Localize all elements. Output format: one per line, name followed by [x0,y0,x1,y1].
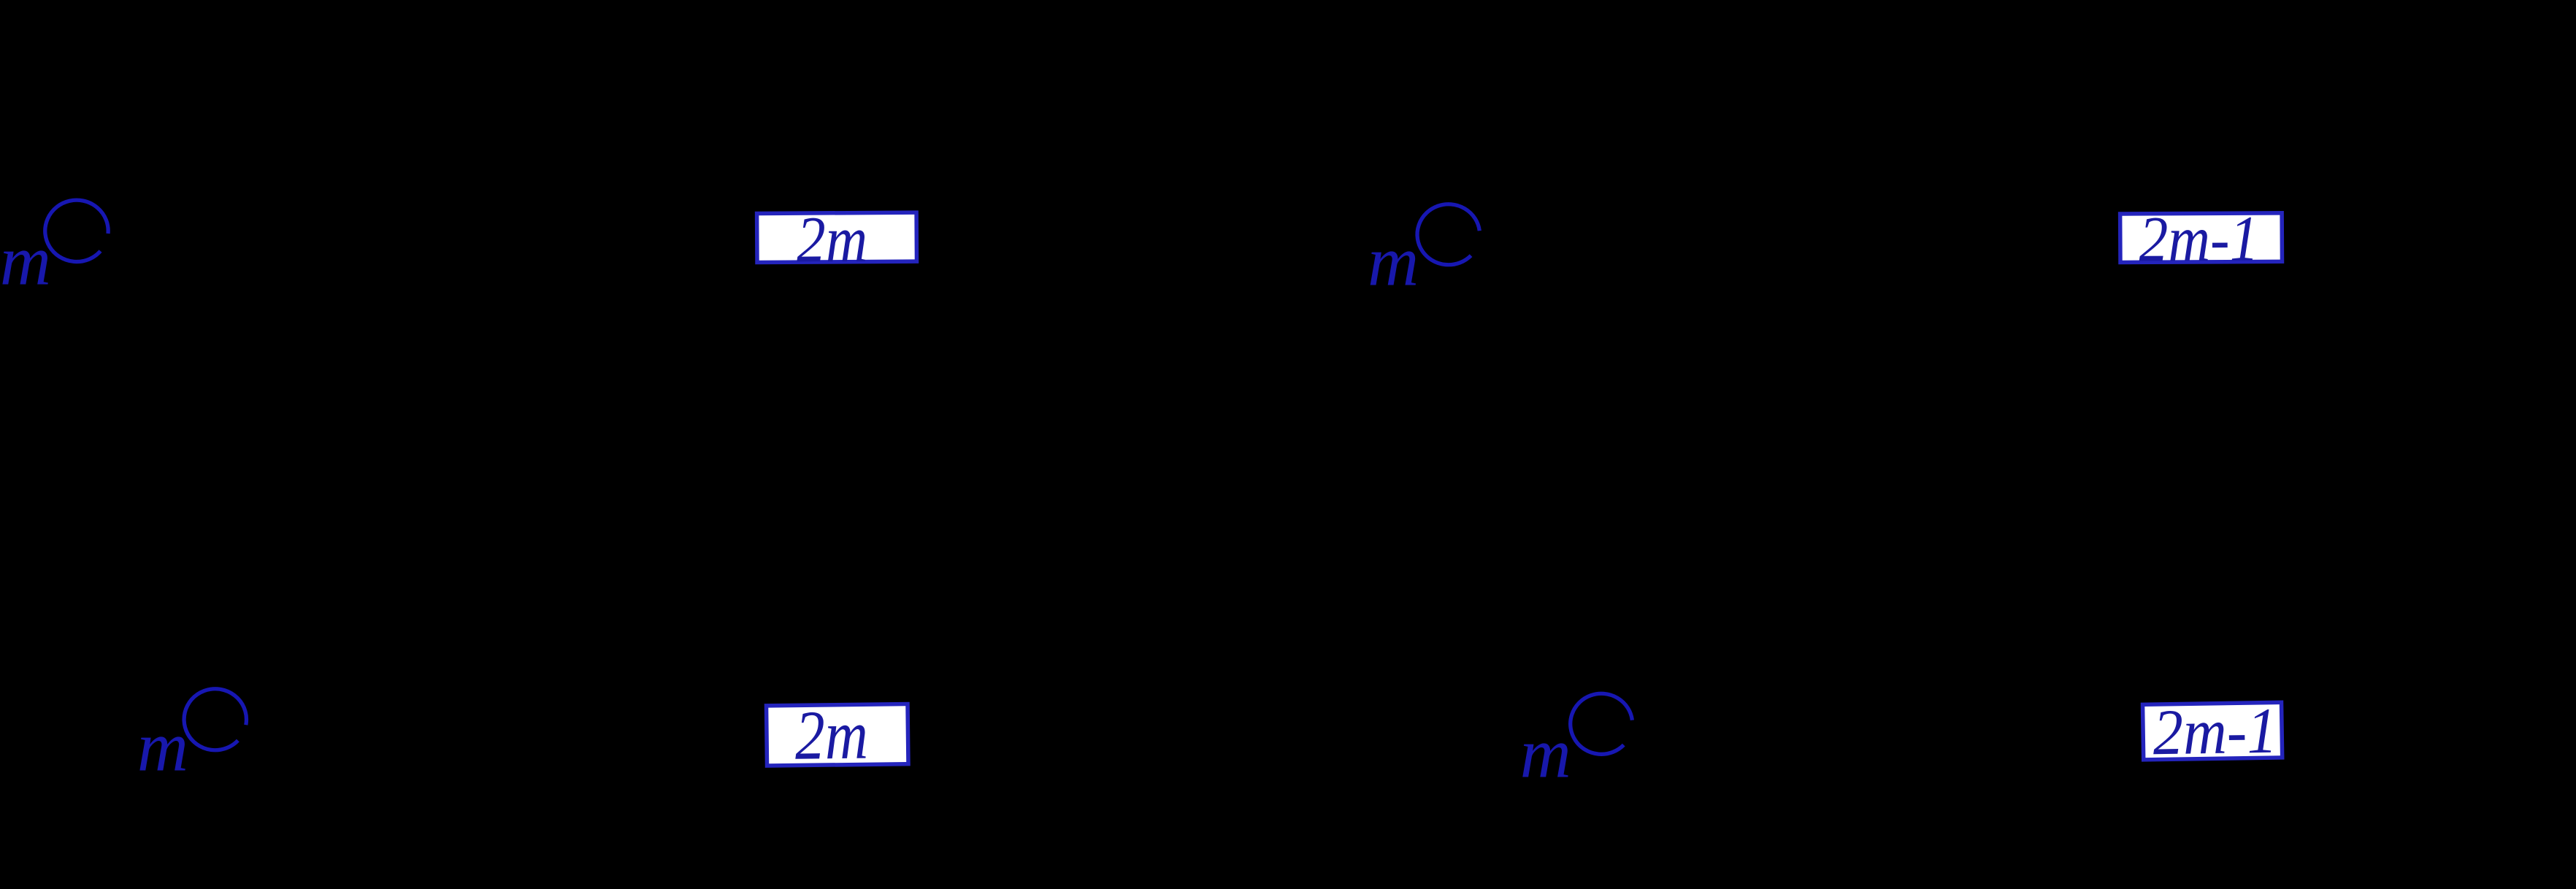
svg-text:m: m [0,222,51,300]
repeat-count box 2m-1 (top, right polymer) [2120,203,2282,275]
label m (top-left ring) [0,222,51,300]
repeat-count box 2m (top, left polymer) [757,203,917,276]
macrocycle ring (bottom-left structure) [184,689,246,750]
svg-text:2m-1: 2m-1 [2139,204,2259,276]
svg-text:m: m [1368,223,1419,301]
macrocycle ring (top-left structure) [45,200,108,261]
svg-text:m: m [137,708,188,786]
svg-text:m: m [1520,714,1571,792]
label m (bottom-left ring) [137,708,188,786]
macrocycle ring (bottom-right structure) [1571,693,1633,754]
svg-text:2m-1: 2m-1 [2153,696,2278,769]
macrocycle ring (top-right structure) [1417,204,1479,265]
label m (top-right ring) [1368,223,1419,301]
svg-text:2m: 2m [797,204,868,277]
label m (bottom-right ring) [1520,714,1571,792]
svg-text:2m: 2m [794,695,868,774]
repeat-count box 2m-1 (bottom, right polymer) [2142,696,2282,769]
repeat-count box 2m (bottom, left polymer) [766,695,908,774]
